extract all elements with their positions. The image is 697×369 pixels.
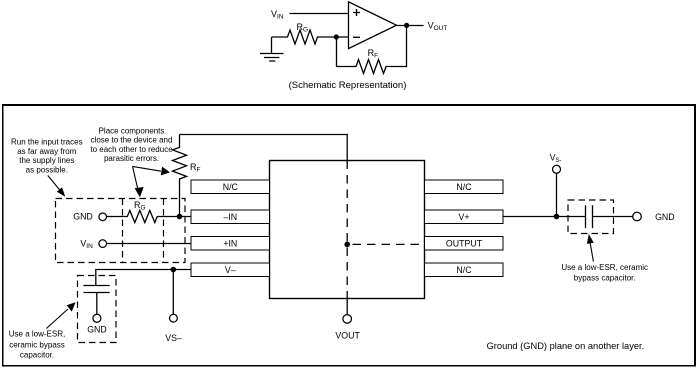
svg-text:–IN: –IN bbox=[223, 212, 237, 222]
svg-text:V+: V+ bbox=[458, 212, 469, 222]
svg-text:GND: GND bbox=[655, 212, 675, 222]
svg-text:V–: V– bbox=[225, 265, 236, 275]
svg-text:Ground (GND) plane on another: Ground (GND) plane on another layer. bbox=[487, 341, 645, 351]
svg-text:Use a low-ESR,: Use a low-ESR, bbox=[9, 330, 65, 339]
svg-text:to each other to reduce: to each other to reduce bbox=[90, 145, 173, 154]
svg-text:bypass capacitor.: bypass capacitor. bbox=[574, 273, 636, 282]
svg-text:capacitor.: capacitor. bbox=[20, 350, 54, 359]
svg-text:+IN: +IN bbox=[223, 238, 237, 248]
svg-text:OUTPUT: OUTPUT bbox=[446, 238, 483, 248]
svg-text:close to the device and: close to the device and bbox=[91, 136, 173, 145]
svg-text:VS–: VS– bbox=[165, 333, 182, 343]
svg-text:the supply lines: the supply lines bbox=[19, 156, 74, 165]
svg-text:as far away from: as far away from bbox=[17, 147, 76, 156]
svg-text:(Schematic Representation): (Schematic Representation) bbox=[289, 80, 407, 91]
svg-text:VOUT: VOUT bbox=[335, 330, 360, 340]
svg-text:ceramic bypass: ceramic bypass bbox=[9, 340, 65, 349]
svg-text:N/C: N/C bbox=[456, 265, 472, 275]
svg-text:GND: GND bbox=[87, 325, 107, 335]
svg-text:N/C: N/C bbox=[223, 182, 239, 192]
svg-text:Place components: Place components bbox=[99, 126, 165, 135]
svg-text:GND: GND bbox=[73, 212, 93, 222]
svg-text:Run the input traces: Run the input traces bbox=[11, 137, 83, 146]
svg-text:N/C: N/C bbox=[456, 182, 472, 192]
svg-text:parasitic errors.: parasitic errors. bbox=[104, 154, 159, 163]
svg-text:Use a low-ESR, ceramic: Use a low-ESR, ceramic bbox=[561, 263, 648, 272]
svg-text:as possible.: as possible. bbox=[26, 166, 68, 175]
